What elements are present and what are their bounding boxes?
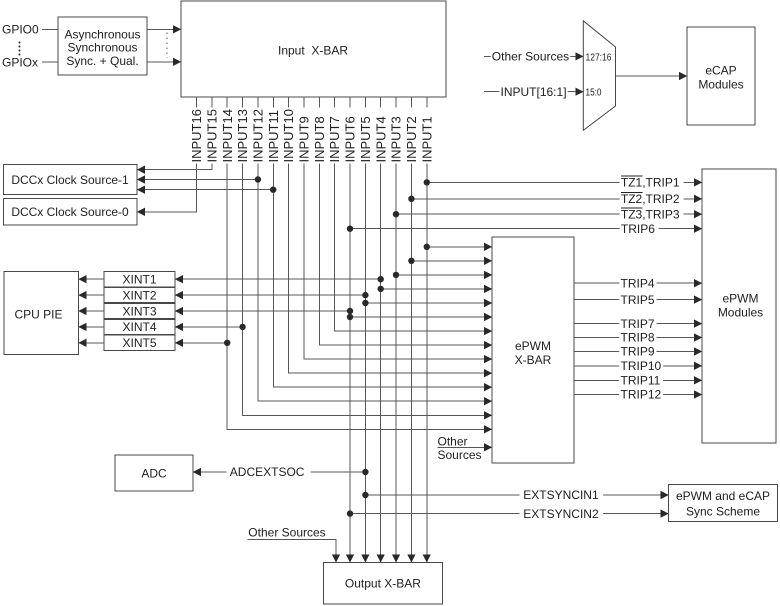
svg-text:INPUT11: INPUT11 <box>266 110 281 163</box>
svg-text:EXTSYNCIN1: EXTSYNCIN1 <box>523 488 599 502</box>
svg-text:127:16: 127:16 <box>586 52 612 63</box>
svg-text:Other Sources: Other Sources <box>248 525 325 539</box>
svg-text:GPIO0: GPIO0 <box>2 22 39 36</box>
wire INPUT8 <box>319 97 492 345</box>
wire ePWM X-BAR to ePWM Modules (TRIP11) <box>574 379 702 381</box>
svg-text:eCAP: eCAP <box>705 63 736 77</box>
block ePWM X-BAR <box>492 237 574 463</box>
wire XINT1 to CPU PIE <box>79 278 105 280</box>
block ePWM Modules <box>702 169 776 443</box>
wire INPUT3 <box>395 97 397 562</box>
wire ePWM X-BAR to ePWM Modules (TRIP8) <box>574 337 702 339</box>
label INPUT2 <box>404 108 419 164</box>
svg-text:XINT2: XINT2 <box>122 288 156 302</box>
svg-text:INPUT9: INPUT9 <box>297 116 312 162</box>
junction INPUT12/DCC1 <box>255 176 261 182</box>
label INPUT12 <box>251 108 266 164</box>
wire INPUT5 to ePWM X-BAR input 5 <box>365 302 492 304</box>
svg-text:Synchronous: Synchronous <box>67 41 137 55</box>
wire XINT3 to CPU PIE <box>79 310 105 312</box>
junction INPUT3/TZ3 <box>393 211 399 217</box>
wire ePWM X-BAR to ePWM Modules (TRIP7) <box>574 323 702 325</box>
wire INPUT5 to XINT2 <box>175 294 365 296</box>
wire INPUT2 to ePWM Modules (TZ2,TRIP2) <box>411 198 702 200</box>
label TRIP7 <box>619 317 656 331</box>
svg-text:INPUT14: INPUT14 <box>220 109 235 162</box>
wire INPUT13 to XINT4 <box>175 326 243 328</box>
svg-text:Modules: Modules <box>718 306 763 320</box>
svg-text:INPUT12: INPUT12 <box>251 109 266 162</box>
wire INPUT6 to Sync Scheme (EXTSYNCIN2) <box>350 513 669 515</box>
junction INPUT4/ePWM-in4 <box>378 286 384 292</box>
label INPUT8 <box>312 108 327 164</box>
wire INPUT12 <box>258 97 492 401</box>
svg-text:Input X-BAR: Input X-BAR <box>278 43 348 57</box>
wire mux to eCAP Modules <box>616 75 688 77</box>
label INPUT14 <box>220 108 235 164</box>
svg-text:INPUT7: INPUT7 <box>327 116 342 162</box>
wire INPUT6 <box>349 97 351 562</box>
svg-text:TRIP9: TRIP9 <box>621 345 655 359</box>
svg-text:INPUT6: INPUT6 <box>343 116 358 162</box>
svg-text:TRIP7: TRIP7 <box>621 317 655 331</box>
junction INPUT6/TRIP6 <box>347 226 353 232</box>
svg-text:TRIP4: TRIP4 <box>621 276 655 290</box>
wire INPUT5 to Sync Scheme (EXTSYNCIN1) <box>365 494 668 496</box>
wire INPUT6 to XINT3 <box>175 310 350 312</box>
label INPUT5 <box>358 108 373 164</box>
wire INPUT3 to ePWM X-BAR input 3 <box>396 274 492 276</box>
junction INPUT6/ePWM-in6 <box>347 314 353 320</box>
label TRIP9 <box>619 345 656 359</box>
wire INPUT6 to ePWM Modules (TRIP6) <box>350 228 702 230</box>
label TRIP10 <box>619 359 663 373</box>
label Other Sources (ePWM X-BAR input) <box>438 434 482 461</box>
wire INPUT2 to ePWM X-BAR input 2 <box>411 260 492 262</box>
junction INPUT2/ePWM-in2 <box>408 258 414 264</box>
svg-text:INPUT[16:1]: INPUT[16:1] <box>501 85 567 99</box>
label EXTSYNCIN1 <box>520 488 604 502</box>
ellipsis dots between GPIO0 and GPIOx <box>19 42 21 56</box>
block Input X-BAR <box>181 1 446 97</box>
svg-text:ePWM: ePWM <box>515 339 551 353</box>
wire sync block to Input X-BAR (row 1) <box>147 28 181 30</box>
label INPUT11 <box>266 108 281 164</box>
svg-text:TRIP12: TRIP12 <box>621 388 662 402</box>
svg-text:ADC: ADC <box>141 466 167 480</box>
wire INPUT6 to ePWM X-BAR input 6 <box>350 316 492 318</box>
dotted line between sync block outputs <box>166 33 168 59</box>
svg-text:INPUT2: INPUT2 <box>404 116 419 162</box>
wire INPUT3 to ePWM Modules (TZ3,TRIP3) <box>396 213 702 215</box>
junction INPUT1/TZ1 <box>424 179 430 185</box>
junction INPUT2/TZ2 <box>408 196 414 202</box>
junction INPUT6/XINT3 <box>347 308 353 314</box>
svg-text:XINT3: XINT3 <box>122 304 156 318</box>
svg-text:ePWM and eCAP: ePWM and eCAP <box>676 489 770 503</box>
label INPUT4 <box>373 108 388 164</box>
wire INPUT9 <box>304 97 492 359</box>
label TRIP6 <box>620 222 659 236</box>
wire INPUT15 <box>137 97 212 170</box>
label TRIP8 <box>619 331 656 345</box>
block DCCx Clock Source-1 <box>4 165 138 195</box>
wire INPUT7 <box>335 97 492 331</box>
wire INPUT13 <box>243 97 492 415</box>
svg-text:INPUT5: INPUT5 <box>358 116 373 162</box>
label INPUT9 <box>297 108 312 164</box>
wire ePWM X-BAR to ePWM Modules (TRIP9) <box>574 351 702 353</box>
label INPUT7 <box>327 108 342 164</box>
svg-text:INPUT8: INPUT8 <box>312 116 327 162</box>
block ePWM and eCAP Sync Scheme <box>669 485 778 522</box>
block XINT1 <box>104 272 175 287</box>
wire INPUT11 to DCCx Clock Source-1 <box>137 189 273 191</box>
label INPUT13 <box>235 108 250 164</box>
wire sync block to Input X-BAR (row 2) <box>147 61 181 63</box>
svg-text:INPUT15: INPUT15 <box>204 109 219 162</box>
svg-text:TRIP5: TRIP5 <box>621 293 655 307</box>
svg-text:XINT1: XINT1 <box>122 273 156 287</box>
svg-text:Sync. + Qual.: Sync. + Qual. <box>66 54 138 68</box>
wire INPUT14 to XINT5 <box>175 342 227 344</box>
svg-text:XINT5: XINT5 <box>122 336 156 350</box>
wire INPUT4 to ePWM X-BAR input 4 <box>381 288 492 290</box>
wire INPUT5 to ADC (ADCEXTSOC) <box>193 471 365 473</box>
label INPUT3 <box>389 108 404 164</box>
block Asynchronous Synchronous Sync. + Qual. <box>58 17 147 75</box>
junction INPUT5/XINT2 <box>362 292 368 298</box>
label TZ2,TRIP2 <box>620 192 684 206</box>
svg-text:Other: Other <box>438 434 468 448</box>
wire INPUT2 <box>410 97 412 562</box>
wire INPUT14 <box>227 97 492 429</box>
svg-text:TRIP10: TRIP10 <box>621 359 662 373</box>
svg-text:ADCEXTSOC: ADCEXTSOC <box>230 465 305 479</box>
label TRIP5 <box>619 293 656 307</box>
block DCCx Clock Source-0 <box>4 199 138 226</box>
svg-text:INPUT10: INPUT10 <box>281 109 296 162</box>
junction INPUT13/XINT4 <box>239 324 245 330</box>
wire Other Sources to mux <box>484 55 583 57</box>
wire INPUT10 <box>289 97 492 373</box>
wire Other Sources to ePWM X-BAR <box>438 446 493 448</box>
svg-text:CPU PIE: CPU PIE <box>14 308 62 322</box>
block eCAP Modules <box>687 27 755 125</box>
block XINT5 <box>104 335 175 350</box>
junction INPUT11/DCC1 <box>270 187 276 193</box>
block XINT2 <box>104 288 175 303</box>
svg-text:Asynchronous: Asynchronous <box>64 27 140 41</box>
wire ePWM X-BAR to ePWM Modules (TRIP10) <box>574 365 702 367</box>
wire XINT5 to CPU PIE <box>79 342 105 344</box>
wire INPUT16 <box>137 97 197 212</box>
svg-text:TZ3,TRIP3: TZ3,TRIP3 <box>621 207 680 221</box>
wire INPUT4 <box>380 97 382 562</box>
block XINT4 <box>104 319 175 334</box>
svg-text:XINT4: XINT4 <box>122 320 156 334</box>
label ADCEXTSOC <box>227 465 311 479</box>
junction INPUT5/ePWM-in5 <box>362 300 368 306</box>
junction INPUT5/EXTSYNCIN1 <box>362 492 368 498</box>
svg-text:INPUT1: INPUT1 <box>419 116 434 162</box>
svg-text:EXTSYNCIN2: EXTSYNCIN2 <box>523 507 599 521</box>
wire INPUT[16:1] to mux <box>484 91 583 93</box>
label TRIP4 <box>619 276 656 290</box>
wire INPUT1 <box>426 97 428 562</box>
wire ePWM X-BAR to ePWM Modules (TRIP4) <box>574 282 702 284</box>
svg-text:Output X-BAR: Output X-BAR <box>345 577 421 591</box>
block ADC <box>115 455 193 491</box>
svg-text:INPUT13: INPUT13 <box>235 109 250 162</box>
wire INPUT1 to ePWM Modules (TZ1,TRIP1) <box>427 181 702 183</box>
junction INPUT3/ePWM-in3 <box>393 272 399 278</box>
svg-text:TRIP11: TRIP11 <box>621 374 661 388</box>
wire INPUT5 <box>364 97 366 562</box>
wire ePWM X-BAR to ePWM Modules (TRIP12) <box>574 394 702 396</box>
wire INPUT1 to ePWM X-BAR input 1 <box>427 246 492 248</box>
svg-text:GPIOx: GPIOx <box>2 55 38 69</box>
wire GPIOx to sync block <box>42 61 58 63</box>
junction INPUT14/XINT5 <box>224 340 230 346</box>
junction INPUT1/ePWM-in1 <box>424 244 430 250</box>
svg-text:TZ1,TRIP1: TZ1,TRIP1 <box>621 176 680 190</box>
svg-text:TRIP8: TRIP8 <box>621 331 655 345</box>
svg-text:TZ2,TRIP2: TZ2,TRIP2 <box>621 192 680 206</box>
label Other Sources (mux input) <box>491 50 571 64</box>
wire XINT2 to CPU PIE <box>79 294 105 296</box>
svg-text:INPUT3: INPUT3 <box>389 116 404 162</box>
label INPUT[16:1] <box>499 85 567 99</box>
svg-text:DCCx Clock Source-1: DCCx Clock Source-1 <box>11 173 129 187</box>
wire XINT4 to CPU PIE <box>79 326 105 328</box>
label TZ3,TRIP3 <box>620 207 684 221</box>
label INPUT6 <box>343 108 358 164</box>
svg-text:INPUT16: INPUT16 <box>189 109 204 162</box>
svg-text:Other Sources: Other Sources <box>492 50 569 64</box>
svg-text:15:0: 15:0 <box>586 88 602 99</box>
svg-text:Sync Scheme: Sync Scheme <box>686 505 760 519</box>
junction INPUT5/ADCEXTSOC <box>362 469 368 475</box>
block Output X-BAR <box>324 562 443 604</box>
mux 128:1 selector <box>583 21 615 131</box>
label TRIP12 <box>619 388 663 402</box>
label TRIP11 <box>619 373 663 387</box>
junction INPUT4/XINT1 <box>378 276 384 282</box>
svg-text:X-BAR: X-BAR <box>515 353 552 367</box>
label TZ1,TRIP1 <box>620 176 684 190</box>
svg-text:Modules: Modules <box>698 77 743 91</box>
svg-text:INPUT4: INPUT4 <box>373 116 388 162</box>
wire GPIO0 to sync block <box>42 28 58 30</box>
label INPUT10 <box>281 108 296 164</box>
wire INPUT11 <box>273 97 492 387</box>
svg-text:DCCx Clock Source-0: DCCx Clock Source-0 <box>11 205 129 219</box>
svg-text:Sources: Sources <box>438 448 482 462</box>
label INPUT15 <box>204 108 219 164</box>
svg-text:TRIP6: TRIP6 <box>621 222 655 236</box>
junction INPUT6/EXTSYNCIN2 <box>347 510 353 516</box>
label EXTSYNCIN2 <box>520 507 604 521</box>
wire INPUT12 to DCCx Clock Source-1 <box>137 179 258 181</box>
wire INPUT4 to XINT1 <box>175 278 381 280</box>
label INPUT1 <box>419 108 434 164</box>
svg-text:ePWM: ePWM <box>723 291 759 305</box>
block CPU PIE <box>4 272 79 355</box>
label INPUT16 <box>189 108 204 164</box>
wire Other Sources to Output X-BAR <box>248 540 337 563</box>
block XINT3 <box>104 303 175 318</box>
wire ePWM X-BAR to ePWM Modules (TRIP5) <box>574 299 702 301</box>
